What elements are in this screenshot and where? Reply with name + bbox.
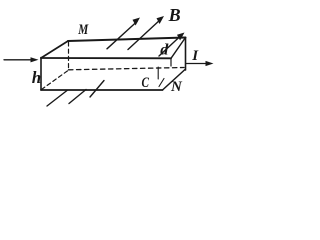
wire: hidden back-bottom edge (dashed) (69, 68, 185, 70)
svg-text:C: C (142, 75, 150, 91)
svg-text:h: h (32, 68, 41, 87)
wire: slab bottom-right slant edge (163, 70, 186, 91)
arrowhead h (31, 57, 39, 62)
wire: slab front-left vertical edge (40, 58, 42, 91)
wire: front-right lower edge fragment (157, 67, 159, 79)
svg-text:d: d (160, 42, 169, 59)
arrowhead I (206, 61, 214, 66)
wire: slab left-top slant edge (41, 41, 68, 58)
field line B1 lower segment (47, 91, 67, 107)
svg-text:N: N (170, 79, 183, 95)
arrowhead B2 (157, 16, 165, 24)
field line arrow B3 at right corner (159, 36, 181, 57)
wire: hidden bottom-left slant edge (dashed) (42, 71, 69, 90)
arrowhead B1 (133, 18, 141, 26)
wire: slab back-right vertical edge (185, 38, 187, 71)
wire: front-right lower slant fragment (159, 79, 164, 87)
arrow h (points to slab left edge) (4, 59, 31, 61)
arrowhead B3 (177, 33, 185, 41)
svg-text:I: I (191, 48, 199, 64)
wire: slab front-bottom edge (41, 89, 163, 91)
field line B2 lower segment (69, 90, 86, 104)
wire: hidden back-left vertical edge (dashed) (68, 42, 70, 70)
field line B3 lower segment (90, 81, 104, 98)
arrow I (current direction) (186, 63, 206, 65)
field line arrow B1 upper segment (107, 22, 137, 49)
wire: slab right-top slant edge (171, 38, 186, 59)
wire: slab back-top edge (68, 38, 186, 42)
svg-text:B: B (168, 5, 181, 25)
wire: slab front-right short vertical edge (170, 58, 172, 66)
svg-text:M: M (77, 22, 88, 38)
wire: slab front-top edge (41, 57, 171, 59)
field line arrow B2 upper segment (128, 19, 161, 50)
